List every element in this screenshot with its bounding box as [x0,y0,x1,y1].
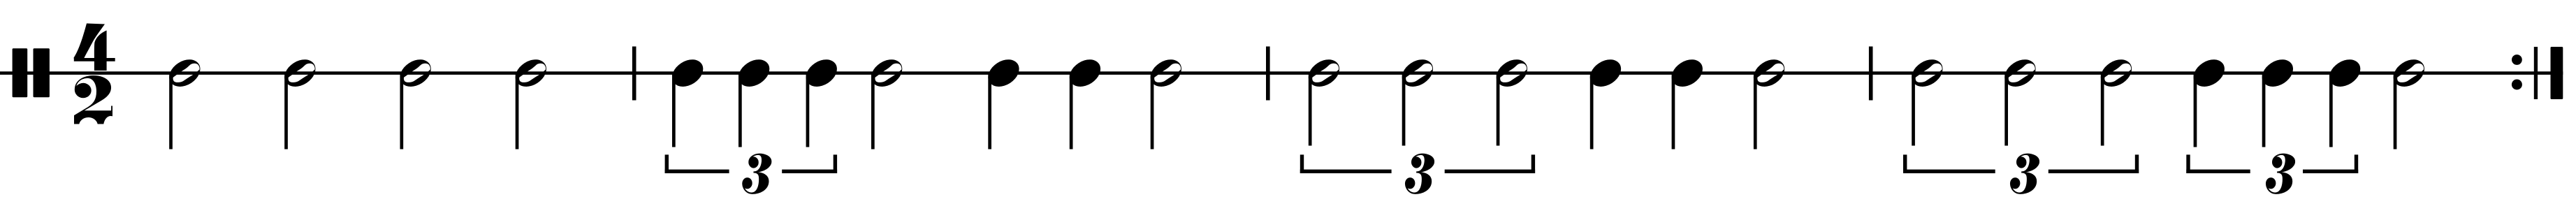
half note 1-3 [400,59,430,149]
half note 2-4 [871,59,902,149]
triplet bracket B (half triplet bar 3) [1300,154,1535,173]
quarter note 2-2 (triplet) [738,59,769,147]
half note 1-1 [169,59,200,149]
half note 3-2 (triplet) [1402,59,1433,145]
half note 1-2 [284,59,315,149]
half note 3-6 [1754,59,1784,149]
repeat dot lower [2512,80,2522,90]
quarter note 3-5 [1672,59,1703,149]
repeat dot upper [2512,54,2522,65]
end heavy barline [2551,47,2563,99]
half note 4-1 (triplet) [1912,59,1942,145]
end thin barline [2534,47,2538,99]
triplet numeral 3 (bracket D) [2266,154,2294,194]
quarter note 2-6 [1070,59,1100,149]
staff line [0,71,2563,75]
half note 1-4 [516,59,546,149]
time signature numeral 2 [74,75,112,124]
triplet bracket C (half triplet bar 4) [1903,154,2139,173]
triplet bracket D (quarter triplet bar 4) [2186,154,2358,173]
quarter note 3-4 [1590,59,1621,149]
quarter note 2-5 [988,59,1019,149]
heavy start barline bar 2 [34,48,50,97]
time signature numeral 4 [73,24,115,71]
half note 4-7 [2394,59,2424,149]
triplet bracket A (quarter triplet bar 2) [665,154,838,173]
barline 3 [1869,47,1873,101]
half note 4-3 (triplet) [2101,59,2132,145]
half note 2-7 [1151,59,1181,149]
half note 4-2 (triplet) [2004,59,2035,145]
quarter note 4-6 (triplet) [2329,59,2360,147]
quarter note 4-4 (triplet) [2194,59,2225,147]
time signature numeral 2 bottom swash carve [79,116,118,137]
heavy start barline bar 1 [13,48,28,97]
half note 3-1 (triplet) [1309,59,1339,145]
quarter note 2-3 (triplet) [806,59,837,147]
quarter note 4-5 (triplet) [2262,59,2293,147]
triplet numeral 3 (bracket A) [743,154,771,194]
barline 1 [632,47,636,101]
triplet numeral 3 (bracket B) [1405,154,1434,194]
quarter note 2-1 (triplet) [672,59,703,147]
barline 2 [1266,47,1270,101]
half note 3-3 (triplet) [1497,59,1527,145]
triplet numeral 3 (bracket C) [2010,154,2039,194]
